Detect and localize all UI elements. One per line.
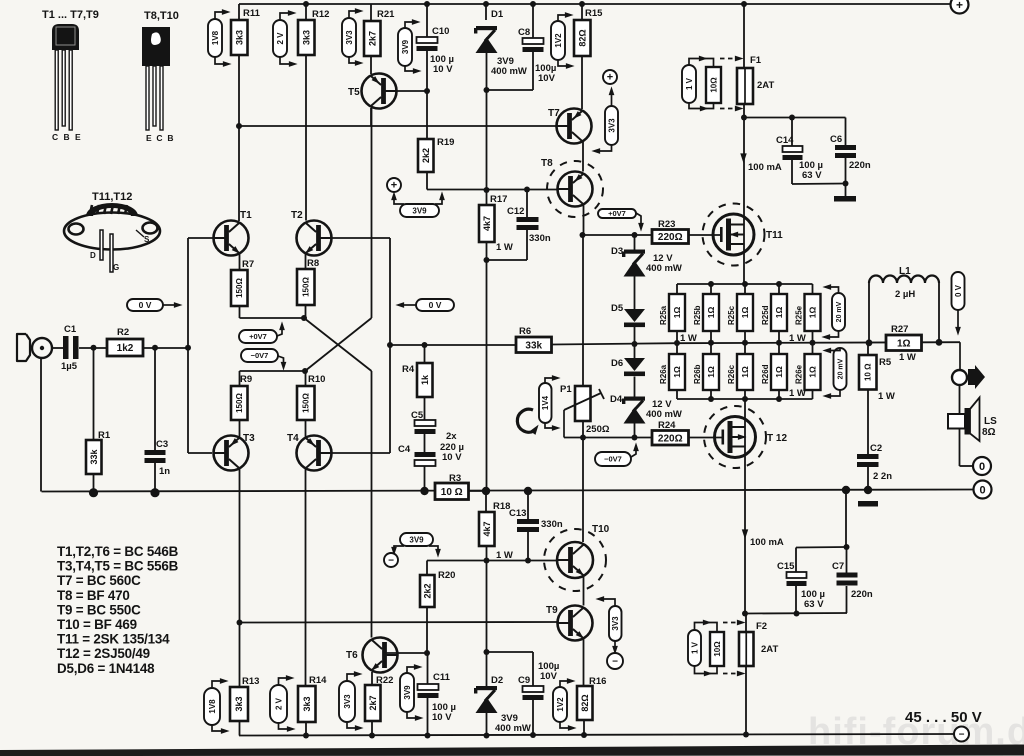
label 3V9 bottom [400,673,414,712]
wire [424,397,426,420]
junction [708,396,714,402]
svg-text:10 Ω: 10 Ω [864,363,873,381]
wire [676,284,678,294]
label arrow [407,667,418,673]
svg-text:R2: R2 [117,327,129,338]
svg-text:63 V: 63 V [804,599,824,610]
wire F1 bypass top [689,59,714,68]
junction [632,435,638,441]
svg-text:1Ω: 1Ω [774,366,784,378]
svg-text:T11 = 2SK 135/134: T11 = 2SK 135/134 [57,632,170,647]
wire output corner [959,342,961,370]
wire feedback line [552,343,678,344]
wire [469,490,487,492]
resistor R11 [231,8,261,55]
label arrow [394,546,404,551]
resistor R16 [577,676,606,720]
junction [302,368,308,374]
label arrow [279,723,292,729]
wire [305,469,307,686]
wire [868,283,870,343]
wire [846,547,848,573]
svg-text:T4: T4 [287,433,299,444]
label 1V F1 [682,65,696,103]
wire [744,331,746,343]
wire [582,142,584,172]
wire [710,284,712,294]
label +0V7 left [239,330,277,343]
transistor T5 [348,74,397,109]
svg-text:R24: R24 [658,420,676,431]
wire [486,652,488,686]
wire cross-coupling [305,318,372,371]
terminal LS return [973,457,991,475]
wire [676,331,678,343]
svg-text:T10 = BF 469: T10 = BF 469 [57,617,137,632]
junction [741,1,747,7]
junction [484,733,490,739]
wire R24 gate line [689,437,723,439]
wire output line [677,342,960,343]
svg-text:R5: R5 [879,357,892,368]
junction [776,396,782,402]
svg-text:T12 = 2SJ50/49: T12 = 2SJ50/49 [57,646,150,661]
current arrow 100mA [740,153,746,163]
label 1V4 [539,383,552,423]
svg-text:−: − [612,657,618,668]
label arrow [558,60,570,66]
resistor R26b [693,354,719,390]
label arrow [215,57,227,64]
svg-text:D4: D4 [610,394,623,405]
component list [57,544,179,676]
svg-text:2k7: 2k7 [368,695,378,710]
wire [867,343,869,355]
wire [239,721,241,736]
diode D3 [611,246,646,277]
junction [524,187,530,193]
junction [482,487,490,495]
junction [776,281,782,287]
resistor R8 [297,258,319,305]
svg-text:1Ω: 1Ω [706,307,716,319]
junction [530,1,536,7]
wire [845,118,847,146]
svg-text:1V8: 1V8 [211,30,220,45]
junction [303,1,309,7]
junction [387,342,393,348]
svg-text:R25b: R25b [693,305,702,325]
label 2V top [273,20,287,57]
label arrow [277,326,282,336]
wire [239,420,241,438]
label -0V7 left [241,349,278,362]
svg-text:100 mA: 100 mA [750,537,784,548]
resistor R26a [659,354,685,390]
wire [390,344,425,346]
svg-text:D3: D3 [611,246,623,257]
svg-text:R26a: R26a [659,364,668,384]
label arrow [405,22,416,28]
junction [580,435,586,441]
resistor R25d [761,294,787,331]
label 3V3 T9 [609,606,622,641]
wire [486,190,488,205]
svg-text:R15: R15 [585,8,603,19]
label arrow [405,66,417,71]
wire [812,390,814,399]
svg-text:C5: C5 [411,410,424,421]
svg-text:2x: 2x [446,431,457,442]
svg-text:−0V7: −0V7 [251,351,269,360]
svg-text:220n: 220n [849,160,871,171]
svg-text:S: S [144,235,150,244]
wire [634,327,636,344]
resistor R20 [420,570,455,607]
svg-text:2 2n: 2 2n [873,471,892,482]
svg-text:T11,T12: T11,T12 [92,191,132,203]
wire [389,345,391,453]
svg-text:R8: R8 [307,258,319,269]
current arrow 100mA [742,529,748,539]
svg-text:C10: C10 [432,26,449,37]
label 1V F2 [688,630,701,666]
junction [185,345,191,351]
resistor 10R F2 [710,632,724,666]
junction [484,649,490,655]
svg-text:3V3: 3V3 [607,118,616,133]
wire [486,561,488,653]
svg-text:+0V7: +0V7 [249,332,267,341]
svg-text:2k7: 2k7 [367,31,377,46]
wire bottom tap [745,612,847,615]
wire [583,639,585,687]
wire [238,4,240,20]
wire [331,452,391,454]
wire [486,90,488,190]
wire supply tap [744,117,846,119]
wire [845,490,847,547]
terminal 0V out [974,481,992,499]
label 1V2 top [551,21,565,60]
junction [580,232,586,238]
junction [810,340,816,346]
junction [632,341,638,347]
svg-text:D6: D6 [611,358,623,369]
resistor R26c [727,354,753,390]
label arrow [407,712,419,718]
label arrow [636,213,641,227]
wire [676,390,678,399]
svg-text:0 V: 0 V [139,300,152,310]
resistor R4 [402,363,433,397]
transistor T7 [548,108,592,144]
label 3V9 mid top [400,204,439,217]
junction [524,487,532,495]
svg-text:T8: T8 [541,158,553,169]
junction [91,345,97,351]
wire F1 column [743,4,745,68]
svg-text:0 V: 0 V [954,284,963,297]
potentiometer wiper [564,393,601,410]
svg-text:R12: R12 [312,9,329,20]
wire [487,259,528,261]
wire [370,4,372,21]
wire [581,56,583,109]
svg-text:20 mV: 20 mV [836,301,843,322]
wire [744,284,746,294]
package TO-126 T8,T10 [142,10,179,143]
label arrow [827,348,840,351]
wire [532,52,534,90]
svg-text:LS: LS [984,416,997,427]
svg-text:0: 0 [979,484,985,496]
junction [842,486,850,494]
wire [427,653,429,684]
wire [188,452,212,454]
svg-text:150Ω: 150Ω [302,277,311,297]
wire T9 base line [240,621,558,624]
wire dashed link bottom [723,673,738,675]
label arrow [212,681,224,688]
wire F1 bypass bottom [689,103,714,109]
wire R1 lead [93,348,95,440]
svg-text:3V9: 3V9 [401,39,410,54]
capacitor C15 [777,561,807,586]
svg-text:1V8: 1V8 [208,699,217,714]
svg-text:10Ω: 10Ω [710,77,719,93]
wire [486,546,488,561]
label arrow [827,390,840,396]
svg-text:2 V: 2 V [274,697,283,710]
svg-text:T3: T3 [243,433,255,444]
fuse F1 [737,55,762,104]
wire [812,343,814,354]
junction [424,1,430,7]
label 3V3 top [342,18,356,57]
svg-text:T7 = BC 560C: T7 = BC 560C [57,573,141,588]
wire dashed link bottom [720,108,736,110]
svg-text:3k3: 3k3 [234,30,244,45]
svg-text:T9 = BC 550C: T9 = BC 550C [57,602,141,617]
svg-text:330n: 330n [529,233,551,244]
svg-text:D2: D2 [491,675,503,686]
wire [846,586,848,613]
label arrow [545,423,556,428]
label arrow [957,310,959,331]
svg-text:T1: T1 [240,210,252,221]
wire T12 drain [744,399,746,614]
resistor R14 [298,675,327,722]
svg-text:R26c: R26c [727,364,736,384]
resistor R9 [231,374,252,420]
resistor R10 [297,374,325,420]
package TO-92 T1..T7,T9 [42,9,99,142]
wire [745,666,747,735]
junction [742,396,748,402]
svg-text:0: 0 [979,461,985,473]
capacitor C6 [830,134,856,158]
junction [422,342,428,348]
label -0V7 mid [595,452,631,466]
label +0V7 mid [598,209,636,218]
resistor R27 [886,324,922,351]
svg-text:3V9: 3V9 [409,535,424,544]
wire T6 base line [386,652,427,654]
wire [532,700,534,735]
capacitor C11 [418,672,451,698]
wire [426,4,428,37]
svg-text:G: G [113,263,119,272]
svg-text:1 W: 1 W [878,391,895,402]
svg-text:1 V: 1 V [685,77,694,90]
svg-text:+: + [607,72,613,84]
wire [582,421,584,438]
wire [845,184,847,197]
resistor R21 [364,9,395,56]
svg-text:1 W: 1 W [899,352,916,363]
svg-text:T 12: T 12 [767,433,787,444]
junction [579,1,585,7]
svg-text:3V9: 3V9 [403,685,412,700]
svg-text:T1 ... T7,T9: T1 ... T7,T9 [42,9,99,21]
svg-text:3V9: 3V9 [412,206,427,215]
wire [634,344,636,358]
resistor R7 [231,259,254,306]
svg-text:1V2: 1V2 [556,697,565,712]
junction [424,88,430,94]
svg-text:C14: C14 [776,135,794,146]
svg-text:1 W: 1 W [680,333,697,344]
label arrow [163,304,178,306]
diode D2 [474,675,503,713]
resistor R19 [418,137,454,172]
svg-text:3k3: 3k3 [234,696,244,711]
wire [425,344,517,346]
wire F2 bypass bottom [695,666,718,674]
label 3V3 T7 [605,106,618,145]
capacitor C12 [507,206,539,230]
wire [426,561,428,576]
resistor 10R F1 [706,67,721,103]
resistor R25c [727,294,753,331]
svg-text:1Ω: 1Ω [706,366,716,378]
svg-text:1Ω: 1Ω [808,366,818,378]
wire P1 top [582,235,584,386]
svg-text:10 V: 10 V [432,712,452,723]
svg-text:400 mW: 400 mW [646,263,682,274]
junction [776,340,782,346]
wire [581,4,583,20]
wire [526,190,528,218]
svg-text:+: + [391,180,397,192]
svg-text:8Ω: 8Ω [982,427,996,438]
wire [527,491,529,519]
junction [301,315,307,321]
wire [238,126,240,221]
transistor T8 [541,158,593,207]
wire R26 bus [677,398,813,400]
wire [487,89,534,91]
wire [532,652,534,686]
svg-text:T9: T9 [546,605,558,616]
svg-text:R18: R18 [493,501,510,512]
label arrow [600,599,615,606]
wire [582,438,584,543]
label arrow [349,57,359,63]
junction [530,732,536,738]
svg-text:R22: R22 [376,675,393,686]
svg-text:400 mW: 400 mW [495,723,531,734]
wire [188,237,213,239]
svg-text:E C B: E C B [146,133,175,143]
svg-text:R21: R21 [377,9,395,20]
junction [150,488,159,497]
svg-text:T2: T2 [291,210,303,221]
wire [79,347,107,349]
wire [485,4,487,20]
wire T11 gate [689,234,722,236]
svg-text:T8,T10: T8,T10 [144,10,179,22]
svg-text:3k3: 3k3 [301,30,311,45]
svg-text:3V3: 3V3 [343,694,352,709]
junction [844,544,850,550]
svg-text:1Ω: 1Ω [672,366,682,378]
package TO-3 T11,T12 [64,191,160,272]
resistor R18 [479,501,510,546]
svg-text:R27: R27 [891,324,908,335]
chassis stub [858,501,878,507]
svg-text:2 V: 2 V [276,32,285,45]
svg-text:10 V: 10 V [433,64,453,75]
svg-text:C7: C7 [832,561,844,572]
svg-text:C11: C11 [433,672,451,683]
wire R25 bus [677,283,813,285]
svg-text:C9: C9 [518,675,530,686]
svg-text:C6: C6 [830,134,842,145]
svg-text:R13: R13 [242,676,259,687]
svg-text:2 µH: 2 µH [895,289,915,300]
svg-text:82Ω: 82Ω [580,694,590,711]
label arrow [558,15,569,21]
wire wiper return [563,410,565,438]
capacitor C1 [63,324,79,359]
label arrow [347,722,359,728]
svg-text:400 mW: 400 mW [491,66,527,77]
svg-text:1Ω: 1Ω [672,307,682,319]
svg-text:R16: R16 [589,676,606,687]
svg-text:4k7: 4k7 [482,521,492,536]
svg-text:R25e: R25e [795,305,804,325]
junction [936,339,943,346]
wire [796,546,847,549]
svg-text:−: − [388,556,394,567]
svg-text:R19: R19 [437,137,454,148]
transistor T3 [214,433,256,471]
svg-text:10Ω: 10Ω [713,641,722,657]
label arrow [279,678,291,685]
capacitor C2 [857,443,882,467]
label arrow [280,57,293,64]
junction [420,487,428,495]
resistor R5 [859,355,892,390]
wire output/0V line [42,490,974,492]
wire [583,576,585,606]
junction [581,732,587,738]
resistor R26d [761,354,787,390]
transistor T10 [557,524,610,578]
svg-text:1 W: 1 W [496,242,513,253]
